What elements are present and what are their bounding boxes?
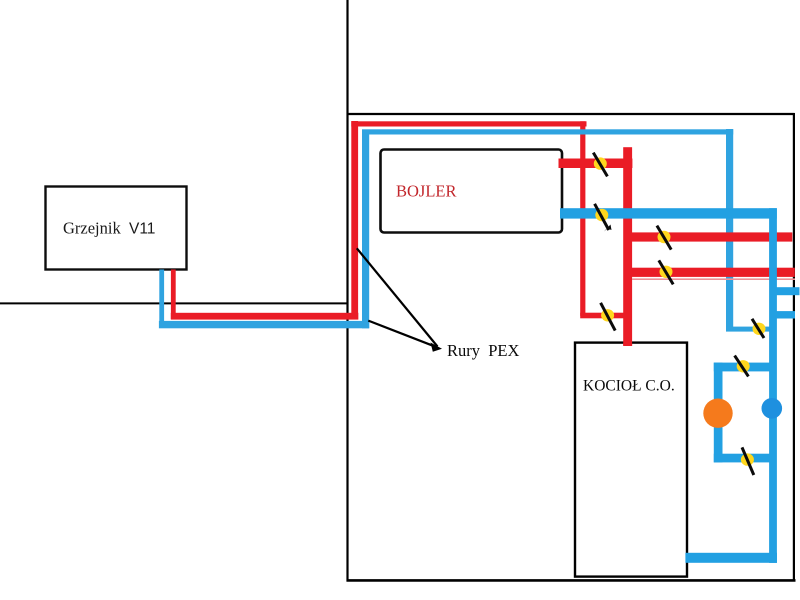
hot pipe R6 short horizontal to manifold bbox=[580, 313, 627, 319]
cold pipe B5 down vertical bbox=[726, 129, 733, 331]
valve V5 on thin red manifold link bbox=[601, 303, 616, 331]
hot pipe R11 thin residue line bbox=[632, 278, 795, 280]
cold pipe B14 boiler return bottom horizontal bbox=[685, 553, 777, 563]
hot pipe R7 tip into KOCIOL bbox=[623, 344, 632, 347]
pump circulator bbox=[703, 399, 732, 428]
check ball on right pipe bbox=[762, 398, 783, 419]
cold pipe B8 right main vertical thick bbox=[769, 208, 777, 563]
valve V8 on bypass bottom bbox=[741, 447, 754, 475]
cold pipe B9 right stub upper bbox=[776, 287, 800, 295]
svg-text:Grzejnik V11: Grzejnik V11 bbox=[63, 219, 155, 238]
cold pipe B12 bypass left vertical bbox=[714, 363, 723, 463]
cold pipe B11 bypass top horizontal bbox=[714, 363, 770, 372]
wall bottom horizontal bbox=[347, 579, 796, 582]
wall left-room horizontal bbox=[0, 302, 349, 304]
cold pipe B3 riser vertical bbox=[362, 131, 369, 328]
svg-text:BOJLER: BOJLER bbox=[396, 182, 457, 201]
pointer line 2 to Rury PEX bbox=[368, 321, 437, 348]
pointer arrowhead bbox=[431, 343, 443, 352]
cold pipe B10 right stub lower bbox=[776, 311, 795, 318]
svg-text:Rury PEX: Rury PEX bbox=[447, 341, 520, 360]
valve V1 on boiler hot outlet bbox=[593, 153, 607, 177]
boiler box BOJLER bbox=[381, 150, 563, 233]
cold pipe B4 top horizontal bbox=[362, 129, 733, 134]
hot pipe R9 upper branch horizontal bbox=[627, 232, 792, 241]
cold pipe B6 short horizontal bbox=[726, 327, 772, 332]
cursor artifact near valve V2 bbox=[604, 225, 612, 232]
radiator box Grzejnik V11 bbox=[46, 187, 187, 270]
valve V7 on bypass top bbox=[735, 356, 750, 377]
pointer line 1 to Rury PEX bbox=[357, 248, 438, 346]
hot pipe R5 down vertical bbox=[580, 121, 585, 315]
wall left vertical bbox=[346, 0, 348, 582]
wall right vertical bbox=[793, 113, 795, 581]
cold pipe B2 lower horizontal bbox=[159, 321, 369, 328]
hot pipe R7 manifold vertical bbox=[623, 147, 632, 345]
hot pipe R10 lower branch horizontal bbox=[627, 268, 795, 277]
valve V2 on boiler cold inlet bbox=[595, 204, 612, 232]
hot pipe R2 lower horizontal bbox=[171, 313, 358, 320]
cold pipe B7 boiler inlet horizontal thick bbox=[560, 208, 777, 218]
valve V6 on thin blue link bbox=[752, 319, 766, 338]
valve V3 on upper red branch bbox=[657, 226, 671, 250]
svg-text:KOCIOŁ C.O.: KOCIOŁ C.O. bbox=[583, 378, 675, 395]
valve V4 on lower red branch bbox=[659, 260, 673, 284]
hot pipe R8 boiler outlet horizontal bbox=[559, 159, 633, 169]
hot pipe R1 radiator drop vertical bbox=[171, 270, 176, 320]
boiler box KOCIOL C.O. bbox=[575, 343, 687, 577]
wall top horizontal bbox=[347, 113, 795, 115]
cold pipe B1 radiator drop vertical bbox=[159, 270, 164, 327]
hot pipe R3 riser vertical bbox=[351, 121, 358, 319]
cold pipe B13 bypass bottom horizontal bbox=[714, 454, 770, 463]
hot pipe R4 top horizontal bbox=[351, 121, 586, 126]
